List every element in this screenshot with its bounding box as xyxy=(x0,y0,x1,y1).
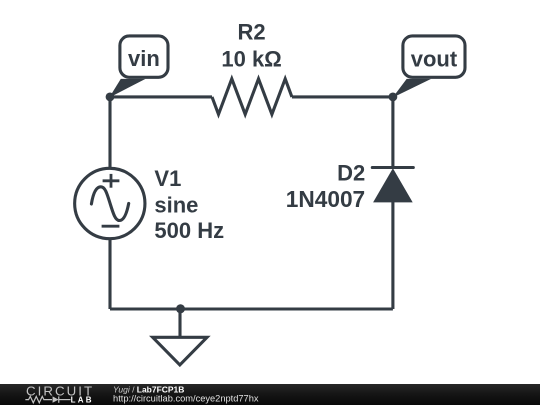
wire right lower: diode to bottom rail xyxy=(391,202,394,309)
svg-text:sine: sine xyxy=(154,193,198,218)
svg-text:10 kΩ: 10 kΩ xyxy=(221,47,281,72)
net label vin callout xyxy=(109,36,168,98)
footer title text xyxy=(113,385,259,404)
diode D2 xyxy=(372,168,413,203)
node vout junction dot xyxy=(389,93,398,102)
svg-text:LAB: LAB xyxy=(71,396,94,405)
value 1N4007 xyxy=(286,186,365,212)
label V1 xyxy=(154,166,181,191)
value sine xyxy=(154,193,198,218)
svg-text:R2: R2 xyxy=(238,19,266,44)
wire top-right: resistor to vout node xyxy=(292,95,393,98)
svg-text:http://circuitlab.com/ceye2npt: http://circuitlab.com/ceye2nptd77hx xyxy=(113,394,259,404)
CircuitLab logo wordmark xyxy=(26,384,94,405)
wire left upper: vin node down to V1 top xyxy=(108,97,111,170)
svg-text:D2: D2 xyxy=(337,161,365,186)
svg-text:vin: vin xyxy=(128,46,160,71)
label D2 xyxy=(337,161,365,186)
node ground junction dot xyxy=(176,304,185,313)
wire right upper: vout node down to diode xyxy=(391,97,394,169)
voltage source V1 xyxy=(75,168,145,238)
footer bar xyxy=(0,384,540,405)
label R2 xyxy=(238,19,266,44)
ground xyxy=(153,337,207,365)
ground stem wire xyxy=(178,309,181,338)
wire bottom rail xyxy=(110,307,393,310)
svg-text:500 Hz: 500 Hz xyxy=(154,218,224,243)
svg-text:vout: vout xyxy=(411,46,458,71)
wire top-left: vin node to resistor xyxy=(110,95,212,98)
node vin junction dot xyxy=(106,93,115,102)
value 10 kOhm xyxy=(221,47,281,72)
resistor R2 xyxy=(212,79,292,115)
CircuitLab logo glyph (resistor + diode) xyxy=(25,397,70,403)
svg-text:1N4007: 1N4007 xyxy=(286,186,365,212)
net label vout callout xyxy=(393,36,465,98)
svg-text:V1: V1 xyxy=(154,166,181,191)
wire left lower: V1 bottom to bottom rail xyxy=(108,238,111,310)
value 500 Hz xyxy=(154,218,224,243)
